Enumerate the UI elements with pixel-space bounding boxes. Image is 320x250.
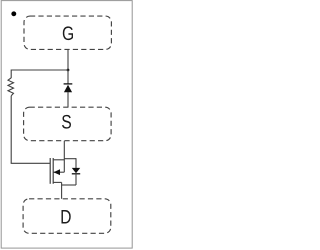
body diode D2 cathode bar	[72, 173, 80, 175]
diode D1 triangle	[64, 85, 72, 93]
body diode D2 triangle	[72, 168, 80, 173]
transistor Q1 body arrow	[54, 169, 61, 175]
diode D1 wire to S box	[67, 92, 69, 107]
diode D1 cathode bar	[64, 83, 73, 85]
transistor Q1 gate bar	[49, 158, 51, 184]
wire left branch down to resistor	[10, 70, 12, 79]
body diode D2 lower wire	[75, 174, 77, 185]
transistor Q1 drain stub wire	[53, 181, 61, 183]
frame border	[1, 1, 132, 249]
label S	[62, 115, 71, 129]
wire resistor to gate lead	[10, 96, 12, 164]
node junction dot	[67, 69, 70, 72]
wire source top stub	[53, 159, 64, 161]
terminal box D	[23, 199, 111, 234]
wire drain down to D box	[61, 182, 63, 198]
diode D1 anode wire from junction	[67, 70, 69, 84]
label D	[61, 210, 70, 223]
wire gate lead	[11, 162, 51, 164]
wire G box down to junction	[67, 49, 69, 70]
pin-1 marker dot	[11, 11, 16, 16]
wire rail to body diode	[64, 158, 76, 160]
wire body diode bottom to drain	[62, 184, 76, 186]
body diode D2 upper wire	[75, 158, 77, 168]
label G	[63, 26, 73, 40]
terminal box S	[24, 107, 112, 141]
wire junction to left branch	[11, 69, 68, 71]
terminal box G	[24, 16, 111, 49]
wire S box down to body stub	[63, 141, 65, 172]
transistor Q1 channel bar	[52, 158, 54, 184]
transistor Q1 body stub wire	[53, 171, 64, 173]
resistor R1	[8, 78, 14, 96]
